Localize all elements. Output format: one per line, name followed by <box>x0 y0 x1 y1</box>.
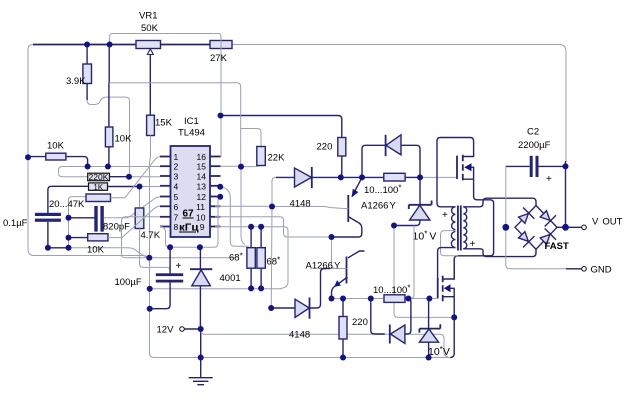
terminal V OUT <box>557 217 623 230</box>
wire left bus vertical <box>28 45 149 258</box>
capacitor 100uF <box>150 247 184 308</box>
ground <box>189 358 213 385</box>
wire C2 left gnd bus <box>506 166 566 268</box>
wire top feedback rail left segment <box>33 44 136 46</box>
svg-text:7: 7 <box>174 212 179 222</box>
wire emitter node rail y177 <box>341 176 384 178</box>
wire 12V to bottom rail <box>200 329 202 358</box>
wire bottom gnd short rail <box>48 247 69 249</box>
svg-text:220K: 220K <box>89 173 110 182</box>
svg-text:2200µF: 2200µF <box>518 140 551 151</box>
wire gate upper <box>420 176 457 178</box>
svg-text:67: 67 <box>183 209 195 220</box>
wire midpoint to lower mosfet drain <box>454 256 458 279</box>
resistor 20...47K <box>69 157 161 218</box>
wire pin2 line y166.5 <box>59 167 161 173</box>
resistor 3.9K <box>83 45 92 101</box>
wire zener node down to lower source <box>394 226 454 318</box>
svg-text:9: 9 <box>200 222 205 232</box>
diode parallel lower <box>371 299 411 344</box>
mosfet M1 upper <box>437 138 494 256</box>
IC pin numbers right 16-9 <box>196 152 206 232</box>
diode 4001 <box>190 247 212 329</box>
label 67 kHz inside IC <box>179 209 199 234</box>
svg-text:3: 3 <box>174 172 179 182</box>
svg-text:+: + <box>546 174 552 185</box>
zener upper 10*V <box>394 177 432 225</box>
diode 4148 lower <box>274 269 330 319</box>
transformer T1 core <box>458 206 461 251</box>
resistor 220K with label <box>59 172 130 182</box>
transformer left winding 2 <box>451 232 455 248</box>
IC U1 TL494 body <box>171 146 211 237</box>
svg-text:820pF: 820pF <box>103 222 130 233</box>
mosfet M2 lower <box>438 259 455 317</box>
svg-text:27K: 27K <box>210 53 228 64</box>
wire mid-left bus x149.5 <box>150 163 155 358</box>
resistor 10...100 lower <box>384 295 405 303</box>
svg-text:100µF: 100µF <box>115 277 142 288</box>
IC pin stubs left <box>160 157 171 227</box>
transformer left winding 1 <box>452 207 456 230</box>
wire top rail 27K right to V OUT bus <box>232 45 566 163</box>
svg-text:22K: 22K <box>268 153 286 164</box>
resistor 10K horizontal <box>28 153 88 166</box>
svg-text:10K: 10K <box>87 245 105 256</box>
resistor 10K vertical <box>105 83 113 167</box>
svg-text:220: 220 <box>352 317 368 328</box>
svg-text:10*V: 10*V <box>428 345 450 358</box>
capacitor C2 <box>506 156 566 177</box>
wire pin15 line y166.6 <box>215 165 241 167</box>
wire pin7 to gnd bus <box>122 217 161 258</box>
zener lower 10*V <box>419 299 440 358</box>
wire 220K node to pin3 <box>129 176 160 178</box>
svg-text:15: 15 <box>197 162 207 172</box>
svg-text:+: + <box>176 261 182 272</box>
svg-text:4148: 4148 <box>290 199 311 210</box>
resistor 15K <box>147 115 155 163</box>
svg-text:4148: 4148 <box>289 330 310 341</box>
capacitor 820pF <box>69 197 161 232</box>
svg-text:5: 5 <box>174 192 179 202</box>
svg-text:TL494: TL494 <box>178 128 205 139</box>
svg-text:3.9K: 3.9K <box>66 76 86 87</box>
wire transformer mid lead <box>441 231 459 256</box>
svg-text:FAST: FAST <box>545 241 569 252</box>
svg-text:10...100*: 10...100* <box>373 284 410 297</box>
svg-text:A1266Y: A1266Y <box>306 261 341 272</box>
resistor 68 no2 <box>257 227 265 289</box>
bridge diode top-right <box>540 211 556 227</box>
wire pin10 to lower driver base <box>215 217 346 269</box>
diode 4148 upper <box>276 167 341 188</box>
resistor 10...100 upper <box>384 173 420 181</box>
resistor 27K <box>210 41 232 49</box>
svg-text:6: 6 <box>174 202 179 212</box>
svg-text:50K: 50K <box>141 23 159 34</box>
svg-text:10K: 10K <box>47 141 65 152</box>
svg-text:GND: GND <box>591 264 612 275</box>
resistor 68 no1 <box>247 227 255 289</box>
svg-text:13: 13 <box>197 181 207 191</box>
transistor Q1 A1266Y upper <box>332 177 363 237</box>
capacitor 0.1uF <box>35 186 89 248</box>
wire upper base line riser to 4148 <box>272 177 278 206</box>
wire 1K node to pin4 <box>140 186 161 188</box>
svg-text:220: 220 <box>317 142 333 153</box>
wire pin15 bus down to gnd line <box>241 167 245 245</box>
wire secondary top to bridge <box>463 198 536 207</box>
svg-text:10...100*: 10...100* <box>364 184 401 197</box>
wire secondary bottom to bridge <box>463 249 536 257</box>
transistor Q2 A1266Y lower <box>330 251 365 299</box>
wire transformer w2 bottom to gate2 <box>438 248 456 278</box>
wire y82.7 horizontal to x240 <box>109 83 241 167</box>
svg-text:4.7K: 4.7K <box>141 230 161 241</box>
bridge diode bottom-right <box>540 228 556 244</box>
bridge rectifier frame <box>515 206 557 250</box>
wire lower gate rail y298.5 <box>332 298 438 300</box>
svg-text:VR1: VR1 <box>139 11 157 22</box>
wire 10Kvert top riser <box>108 45 110 83</box>
wire 22K bottom link <box>241 165 261 166</box>
wire pin13 loop to 68 resistors <box>220 187 249 247</box>
wire crossing 27K <box>220 38 222 58</box>
svg-text:VOUT: VOUT <box>592 217 623 228</box>
resistor 220 upper <box>338 138 346 178</box>
svg-text:12V: 12V <box>157 325 175 336</box>
svg-text:+: + <box>442 210 448 221</box>
svg-text:1: 1 <box>174 152 179 162</box>
svg-text:15K: 15K <box>155 118 173 129</box>
terminal GND <box>566 264 612 275</box>
transformer right winding <box>463 207 467 249</box>
resistor 10K bottom <box>69 206 161 241</box>
wire 12V inner loop <box>201 329 448 357</box>
bridge diode top-left <box>519 208 535 224</box>
svg-text:8: 8 <box>174 222 179 232</box>
wire loop over VR1 to pin16 <box>110 34 221 113</box>
svg-text:2: 2 <box>174 162 179 172</box>
svg-text:0.1µF: 0.1µF <box>3 218 28 229</box>
wire zener line to lower gate node <box>412 226 415 299</box>
potentiometer VR1 <box>136 41 161 116</box>
svg-text:4001: 4001 <box>220 273 241 284</box>
svg-text:4: 4 <box>174 181 179 191</box>
wire pin8 to 12V rail under IC <box>160 197 220 248</box>
svg-text:12: 12 <box>197 192 207 202</box>
IC pin numbers left 1-8 <box>174 152 179 232</box>
node left cap bus <box>68 218 70 248</box>
bottom rail <box>155 317 455 357</box>
node 220 top feed y115.5 <box>221 116 342 138</box>
wire VOUT bus vertical <box>565 161 567 227</box>
wire x221 below dot to pin16 <box>214 116 221 157</box>
svg-text:20...47K: 20...47K <box>49 199 85 210</box>
svg-text:10: 10 <box>196 212 206 222</box>
svg-text:1K: 1K <box>94 183 104 192</box>
wire top rail VR1 to 27K <box>161 44 211 46</box>
svg-text:16: 16 <box>197 152 207 162</box>
wire 3.9K to 220K right node <box>87 97 129 177</box>
svg-text:14: 14 <box>197 172 207 182</box>
svg-text:C2: C2 <box>527 127 539 138</box>
svg-text:11: 11 <box>196 202 205 212</box>
wire riser x271.5 down to lower 4148 <box>271 207 278 309</box>
resistor 1K with label <box>89 183 140 192</box>
wire gnd y257.8 to driver collectors <box>149 257 235 259</box>
wire lower source down to rail <box>450 317 454 357</box>
resistor 22K <box>241 129 266 166</box>
wire gnd sub-rail y=248 <box>69 248 147 257</box>
svg-text:кГц: кГц <box>179 223 199 234</box>
terminal 12V <box>157 325 201 336</box>
svg-text:10K: 10K <box>115 134 133 145</box>
svg-text:A1266Y: A1266Y <box>361 201 396 212</box>
wire pin9 emitter line with 68 taps <box>215 227 288 289</box>
bridge diode bottom-left <box>519 232 535 248</box>
svg-text:IC1: IC1 <box>184 116 199 127</box>
diode parallel upper <box>362 135 420 178</box>
wire pin11 to upper driver base <box>215 206 344 208</box>
resistor 4.7K <box>135 187 170 274</box>
IC pin stubs right <box>210 157 221 227</box>
resistor 220 lower <box>339 299 347 358</box>
wire 68 bottoms to gnd bus <box>150 288 282 290</box>
